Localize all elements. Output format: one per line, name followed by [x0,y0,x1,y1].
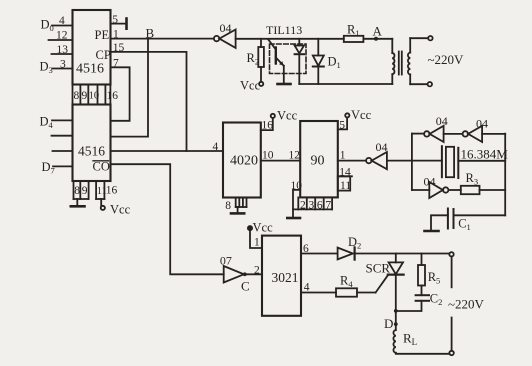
90 pin14 wire [338,175,352,177]
90 pin11 stub box [338,176,350,190]
AC terminal bottom [428,82,432,86]
svg-text:4: 4 [213,141,219,153]
wire 07 to 3021 pin2 [245,273,262,275]
4020 pin16 Vcc stub [261,114,275,130]
svg-text:3: 3 [60,58,66,70]
wire U1 pin 12 input [49,39,73,41]
wire U1 pin 5 with stub terminator [111,19,127,29]
resistor R3 [461,186,505,194]
inverter 04 clock feed [366,152,412,169]
Vcc at R2 [259,82,263,86]
svg-text:C: C [241,279,250,294]
wire U2 CO out dropper to 07 buffer [111,164,224,274]
AC terminal bottom right bottom [449,318,453,356]
svg-text:5: 5 [339,119,345,131]
wire U2 input D4 [52,119,73,121]
optocoupler 3021 body [262,236,301,316]
LED of TIL113 [295,39,304,84]
Vcc at U2 pin 16 [101,199,105,210]
AC terminal top [428,36,432,40]
inverter 04 osc top second [463,126,506,142]
svg-text:1: 1 [113,28,119,40]
svg-text:15: 15 [113,42,125,54]
inverter 04 top [214,30,236,48]
wire U1 pin 3 input [53,68,73,70]
resistor R2 [258,39,264,82]
svg-text:1: 1 [340,150,346,162]
osc top wire [412,133,424,135]
svg-text:12: 12 [289,150,301,162]
svg-text:3: 3 [309,199,315,211]
90 pin5 Vcc stub [338,113,350,129]
resistor R5 [418,254,425,296]
svg-text:9: 9 [82,90,88,102]
wire node B dropper to U2 [111,39,148,137]
wire 4020 pin10 to 90 pin12 [261,160,300,162]
divider 4020 body [223,123,261,198]
svg-text:16: 16 [262,120,274,132]
wire 90 pin1 to inverter [338,160,366,162]
svg-text:Vcc: Vcc [253,221,274,235]
svg-text:6: 6 [303,243,309,255]
svg-text:90: 90 [311,154,325,169]
wire bottom return [299,83,392,85]
svg-text:04: 04 [476,117,488,131]
wire U1 pin 4 input [52,25,73,27]
svg-text:8: 8 [74,185,80,197]
capacitor C1 [431,209,505,230]
U2 bottom pin cells 8 9 [74,181,89,199]
phototransistor of TIL113 [268,40,284,84]
svg-text:04: 04 [220,21,232,35]
wire U2 input D7 [53,165,73,167]
svg-text:Vcc: Vcc [110,203,131,217]
svg-text:2: 2 [300,199,306,211]
U1 bottom pin cells 8 9 10 16 [73,85,111,105]
svg-text:16: 16 [106,185,118,197]
svg-text:4: 4 [59,15,65,27]
svg-text:3021: 3021 [272,270,299,285]
wire D2 to AC terminal [355,253,450,255]
svg-text:~220V: ~220V [428,52,465,67]
svg-text:4: 4 [304,282,310,294]
svg-text:4516: 4516 [78,144,105,159]
svg-text:16.384M: 16.384M [461,147,509,162]
4020 bottom pin cells [236,198,247,208]
diode D1 [313,39,324,84]
wire 3021 pin1 from Vcc [250,230,262,248]
svg-text:CO: CO [93,160,110,174]
transformer primary [392,39,394,84]
capacitor C2 [396,295,429,311]
osc bottom wire [412,189,429,191]
svg-text:CP: CP [96,48,111,62]
ground at 90 [287,209,300,218]
wire U1 pin 1 to node B and inverter [111,38,214,40]
counter 90 body [300,121,338,197]
svg-text:SCR: SCR [366,261,391,276]
wire U1 pin 13 input [52,53,73,55]
emitter stub bar [278,83,291,86]
transformer secondary [408,38,428,84]
svg-text:A: A [373,24,383,39]
wire U1 pin 15 (CP) [111,52,187,151]
svg-text:16: 16 [107,90,119,102]
svg-text:07: 07 [220,254,232,268]
svg-text:~220V: ~220V [448,297,485,312]
svg-text:11: 11 [340,180,351,192]
inverter 04 osc top first [424,126,444,142]
svg-text:5: 5 [112,14,118,26]
svg-text:6: 6 [317,199,323,211]
diode D2 [338,247,355,259]
svg-text:4020: 4020 [230,154,258,169]
svg-text:2: 2 [254,264,260,276]
SCR [388,254,404,311]
junction dot SCR/C2 [394,309,398,313]
node D dot [394,311,398,330]
node A [374,37,378,41]
svg-text:04: 04 [436,114,448,128]
ground at C1 [425,230,439,233]
resistor R1 [344,36,364,42]
inductor RL load [393,330,449,354]
oscillator left rail [411,134,413,190]
U2 bottom pin cell 11 [96,181,104,199]
svg-text:B: B [146,26,155,41]
wire U2 carry to 4020 pin 4 [111,150,223,152]
90 bottom pin cells 2 3 6 7 [298,197,332,209]
svg-text:7: 7 [325,199,331,211]
svg-text:04: 04 [376,140,388,154]
counter U2 4516 body [73,105,111,182]
inverter 04 osc bottom [429,182,461,198]
svg-text:4516: 4516 [76,62,104,77]
resistor R4 [336,288,376,296]
optocoupler TIL113 dashed box [270,44,307,74]
svg-text:8: 8 [225,200,231,212]
svg-text:D: D [384,316,393,331]
crystal Y1 [412,146,505,178]
node C dot [243,272,247,276]
90 pin10 wire to ground rail [293,190,332,210]
wire U1 pin 7 to U2 [111,67,130,121]
ground at 4020 pin 8 [231,207,244,213]
wire between top inverters [444,133,463,135]
wire U2 input 2 [52,135,73,137]
oscillator right rail [504,134,506,216]
wire U2 input 3 [53,150,73,152]
AC terminal bottom right top [449,252,453,287]
svg-text:1: 1 [254,236,260,248]
svg-text:TIL113: TIL113 [266,23,302,37]
ground at U2 pin 8 [71,199,85,206]
svg-text:10: 10 [291,180,303,192]
svg-text:12: 12 [56,30,68,42]
svg-text:Vcc: Vcc [277,109,298,123]
Vcc dot 3021 [248,226,252,230]
SCR gate wire [376,275,389,293]
svg-text:04: 04 [424,174,436,188]
svg-text:PE: PE [95,28,110,42]
svg-text:7: 7 [113,57,119,69]
wire inverter to transformer line A [236,38,393,40]
wire 3021 pin4 to R4 [301,292,336,294]
U2 pin label CO with overline [93,160,110,174]
transformer core [399,52,402,75]
svg-text:Vcc: Vcc [240,79,261,93]
svg-text:8: 8 [74,90,80,102]
svg-text:9: 9 [82,185,88,197]
buffer 07 [224,266,244,283]
wire 3021 pin6 to D2 [301,253,338,255]
svg-text:10: 10 [262,150,274,162]
counter U1 4516 body [73,10,111,85]
svg-text:10: 10 [89,91,100,102]
svg-text:13: 13 [57,44,69,56]
svg-text:Vcc: Vcc [351,108,372,122]
